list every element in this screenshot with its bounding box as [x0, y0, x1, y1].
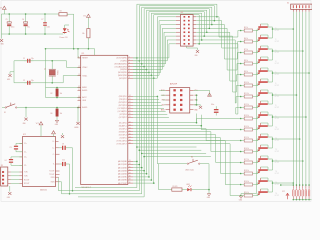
net PB7 loop route [154, 15, 241, 114]
svg-text:10k: 10k [60, 93, 63, 95]
svg-text:(INT1)PD3: (INT1)PD3 [119, 105, 127, 107]
header pin row 8 stubs [176, 43, 181, 45]
resistor R4 330 [59, 13, 67, 16]
svg-text:R15 1k: R15 1k [244, 137, 249, 139]
ladder vertical 5 [148, 12, 150, 177]
collector wire T7 [261, 90, 273, 93]
svg-text:R4: R4 [60, 11, 62, 13]
svg-text:(TXD)PD1: (TXD)PD1 [119, 99, 127, 101]
resistor R10 base [244, 84, 252, 87]
svg-text:(OC2)PD7: (OC2)PD7 [119, 117, 127, 119]
svg-text:X2: X2 [287, 2, 289, 4]
resistor R17 base [244, 161, 252, 164]
vert join aref avcc [45, 88, 47, 98]
capacitor C2 22p [27, 81, 28, 85]
collector wire T5 [261, 68, 273, 71]
net JP1 left pin 2 hook [133, 21, 176, 76]
transistor T6 [253, 85, 257, 87]
transistor T15 [253, 184, 257, 186]
svg-text:(ADC7)PA7: (ADC7)PA7 [118, 182, 127, 185]
resistor R16 base [244, 150, 252, 153]
collector wire T11 [261, 134, 273, 137]
svg-text:(SCK)PB7: (SCK)PB7 [119, 78, 127, 80]
wire R1 down to vcc net [87, 38, 89, 49]
ground under R6 [55, 120, 58, 122]
net JP1 left pin 4 hook [133, 28, 176, 69]
svg-text:100n: 100n [211, 104, 214, 106]
header pin row 3 stubs [176, 24, 181, 26]
svg-text:C9: C9 [62, 144, 64, 146]
supply +5V symbol [3, 9, 5, 14]
svg-text:R14 1k: R14 1k [244, 126, 249, 128]
isp gnd cross [194, 104, 201, 106]
wires PC pins to lower transistor resistors [133, 119, 241, 123]
pin header JP1 16pin [180, 15, 193, 47]
isp left wires [159, 89, 166, 91]
resistor R9 base [244, 73, 252, 76]
svg-text:MAX232: MAX232 [40, 189, 47, 192]
svg-text:10u: 10u [27, 27, 30, 29]
power rail bottom [2, 33, 64, 35]
wire vcc branch down AVCC [45, 49, 47, 88]
capacitor C4 left of IC [11, 156, 23, 158]
svg-text:R1OUT: R1OUT [24, 179, 29, 181]
collector wire T12 [261, 145, 273, 148]
bottom bundle line 3 [78, 196, 144, 198]
wire S2 left to riser [157, 163, 183, 165]
svg-text:Power ON: Power ON [60, 36, 69, 39]
wire avcc rail [46, 97, 81, 99]
svg-text:(INT0)PD2: (INT0)PD2 [119, 102, 127, 104]
resistor R2 top [56, 89, 59, 97]
wires PD pins heading right [133, 95, 157, 97]
collector wire T15 [261, 178, 273, 181]
header pin row 7 stubs [176, 39, 181, 41]
svg-text:GND: GND [23, 123, 26, 125]
svg-text:BC337: BC337 [275, 74, 279, 76]
svg-text:R12 1k: R12 1k [244, 104, 249, 106]
column bus verticals [292, 12, 294, 185]
net JP1 left pin 8 hook [133, 44, 176, 58]
svg-text:V+: V+ [52, 141, 54, 143]
svg-text:(ADC1)PA1: (ADC1)PA1 [118, 163, 127, 166]
resistor R5 base [244, 29, 252, 32]
svg-text:BC337: BC337 [275, 195, 279, 197]
LED2 [187, 188, 190, 191]
svg-text:C2+: C2+ [24, 157, 27, 159]
left pin stubs [78, 57, 81, 59]
net PB5 loop route [149, 12, 241, 92]
collector wire T9 [261, 112, 273, 115]
collector wire T2 [261, 35, 273, 38]
svg-text:BC337: BC337 [275, 184, 279, 186]
max232 to mcu serial wires [59, 177, 140, 191]
transistor T7 [253, 96, 257, 98]
svg-text:C1: C1 [23, 58, 25, 60]
svg-text:(SDA)PC1: (SDA)PC1 [119, 124, 127, 127]
svg-text:R17 1k: R17 1k [244, 159, 249, 161]
corner net 1 [139, 149, 201, 151]
svg-text:T10: T10 [275, 127, 278, 129]
svg-text:(ADC3)PA3: (ADC3)PA3 [118, 169, 127, 172]
LED1 top tie [65, 24, 69, 26]
svg-text:AREF: AREF [82, 86, 87, 89]
svg-text:C2: C2 [23, 80, 25, 82]
gnd cap top right [62, 133, 64, 135]
switch S1 reset [2, 107, 5, 109]
svg-text:(ICP)PD6: (ICP)PD6 [119, 114, 126, 116]
transistor T14 [253, 173, 257, 175]
svg-text:(OC0/AIN1)PB3: (OC0/AIN1)PB3 [115, 65, 127, 68]
resistor R1 10k [87, 29, 90, 38]
svg-text:LED/7-mode: LED/7-mode [185, 170, 194, 172]
bottom bundle line 0 [75, 187, 137, 189]
transistor T16 [253, 195, 257, 197]
wire R4 to corner [67, 13, 74, 15]
resistor R20 base [244, 194, 252, 197]
resistor R15 base [244, 139, 252, 142]
svg-text:100u: 100u [11, 27, 15, 29]
svg-text:(TOSC1)PC6: (TOSC1)PC6 [117, 140, 127, 142]
svg-text:C3: C3 [10, 147, 12, 149]
svg-text:AGND: AGND [82, 106, 88, 109]
svg-text:R6: R6 [51, 113, 53, 115]
svg-text:T14: T14 [275, 171, 278, 173]
svg-text:(TDO)PC4: (TDO)PC4 [119, 134, 127, 136]
collector wire T13 [261, 156, 273, 159]
svg-text:C5: C5 [6, 19, 8, 21]
collector wire T4 [261, 57, 273, 60]
capacitor C7 100n [43, 22, 47, 23]
net PB2 loop route [142, 7, 241, 59]
svg-text:BC337: BC337 [275, 129, 279, 131]
connector bottom matrix [292, 185, 294, 189]
svg-text:R6 1k: R6 1k [244, 38, 248, 40]
svg-text:BC337: BC337 [275, 52, 279, 54]
wire cap C9 down [72, 148, 74, 191]
svg-text:(ADC6)PA6: (ADC6)PA6 [118, 179, 127, 182]
svg-text:R7 1k: R7 1k [244, 49, 248, 51]
transistor T8 [253, 107, 257, 109]
svg-text:22p: 22p [31, 80, 34, 82]
svg-text:BC337: BC337 [275, 41, 279, 43]
svg-text:R18 1k: R18 1k [244, 170, 249, 172]
connector X2 top display [291, 4, 313, 9]
emitter rail [256, 30, 258, 194]
connector SV1 AVR-ISP [170, 88, 190, 113]
ground G1 [0, 39, 3, 42]
net JP1 left pin 1 hook [133, 17, 176, 78]
wire agnd rail [17, 107, 81, 109]
resistor R14 base [244, 128, 252, 131]
svg-text:R13 1k: R13 1k [244, 115, 249, 117]
ladder vertical 4 [146, 10, 148, 174]
capacitor C5 100u [7, 22, 11, 23]
capacitor C1 22p [27, 59, 28, 63]
svg-text:T2: T2 [275, 39, 277, 41]
ladder vertical 1 [138, 6, 140, 191]
ground of emitter rail [239, 196, 242, 198]
wire bottom connector rows [281, 184, 294, 186]
svg-text:MEGA16-P: MEGA16-P [82, 186, 92, 189]
svg-text:R10 1k: R10 1k [244, 82, 249, 84]
svg-text:T1OUT: T1OUT [49, 171, 54, 173]
ground under X1 [9, 186, 11, 192]
supply VCC arrow [87, 17, 89, 29]
transistor T10 [253, 129, 257, 131]
collector wire T8 [261, 101, 273, 104]
svg-text:(RXD)PD0: (RXD)PD0 [119, 96, 127, 98]
wire cap C10 down [69, 164, 71, 194]
svg-text:BC337: BC337 [275, 151, 279, 153]
PB pin taps [133, 57, 137, 59]
svg-text:R3 470: R3 470 [173, 186, 178, 188]
resistor R6 lower [56, 109, 59, 117]
net JP1 left pin 3 hook [133, 25, 176, 73]
capacitor C10 on V- [60, 163, 63, 165]
capacitor C3 left of IC [16, 142, 23, 144]
wire xtal top [14, 60, 67, 62]
svg-text:BC337: BC337 [275, 96, 279, 98]
svg-text:LED2: LED2 [186, 184, 190, 186]
wire xtal bottom [14, 82, 63, 84]
svg-text:(ADC0)PA0: (ADC0)PA0 [118, 160, 127, 163]
svg-text:10k: 10k [82, 33, 85, 35]
corner net 2 [142, 152, 206, 154]
resistor R3 [159, 189, 172, 191]
svg-text:R5 1k: R5 1k [244, 27, 248, 29]
header pin row 6 stubs [176, 35, 181, 37]
header pin row 5 stubs [176, 31, 181, 33]
svg-text:R8 1k: R8 1k [244, 60, 248, 62]
svg-text:(TMS)PC3: (TMS)PC3 [119, 131, 127, 133]
svg-text:BC337: BC337 [275, 173, 279, 175]
ground under LED2 [208, 190, 210, 194]
svg-text:BC337: BC337 [275, 118, 279, 120]
svg-text:BC337: BC337 [275, 107, 279, 109]
wire xtal1 to IC [63, 76, 80, 83]
svg-text:(TDI)PC5: (TDI)PC5 [120, 137, 127, 139]
net PB3 loop route [144, 9, 241, 70]
net JP1 left pin 5 hook [133, 32, 176, 66]
svg-text:(SS)PB4: (SS)PB4 [120, 69, 127, 71]
capacitor C6 10u [24, 22, 28, 23]
arrow symbol near matrix connector [286, 193, 289, 199]
svg-text:(ADC5)PA5: (ADC5)PA5 [118, 176, 127, 179]
collector wire T10 [261, 123, 273, 126]
header pin row 4 stubs [176, 27, 181, 29]
svg-text:C7: C7 [41, 19, 43, 21]
crystal Q1 16MHz [51, 61, 53, 70]
resistor R19 base [244, 183, 252, 186]
svg-text:IC2: IC2 [23, 134, 26, 136]
collector wire T1 [261, 24, 273, 27]
power rail top [2, 13, 59, 15]
svg-text:VCC: VCC [282, 191, 285, 193]
svg-text:C+: C+ [52, 148, 54, 150]
svg-text:(ADC2)PA2: (ADC2)PA2 [118, 166, 127, 169]
transistor T1 [253, 30, 257, 32]
svg-text:T16: T16 [275, 193, 278, 195]
svg-text:(INT2/AIN0)PB2: (INT2/AIN0)PB2 [114, 62, 126, 65]
net JP1 left pin 7 hook [133, 40, 176, 61]
corner net 3 [144, 156, 211, 158]
svg-text:100n: 100n [47, 27, 51, 29]
wire vcc to IC1 [94, 49, 96, 56]
collector wire T14 [261, 167, 273, 170]
svg-text:C1+: C1+ [24, 143, 27, 145]
net PB6 loop route [151, 13, 240, 103]
svg-text:(OC1A)PD5: (OC1A)PD5 [118, 110, 127, 113]
resistor R8 base [244, 62, 252, 65]
svg-text:S2: S2 [191, 156, 193, 158]
svg-text:T12: T12 [275, 149, 278, 151]
isp vcc arrow [194, 89, 210, 91]
wire aref rail [46, 87, 81, 89]
resistor R6 base [244, 40, 252, 43]
transistor T2 [253, 41, 257, 43]
IC2 MAX232 [23, 137, 56, 187]
header pin row 1 stubs [176, 16, 181, 18]
corner net 0 [137, 146, 197, 148]
isp dots column [196, 94, 198, 96]
microcontroller IC1 MEGA16-P [81, 55, 128, 184]
svg-text:SCK: SCK [162, 104, 165, 106]
svg-text:R19 1k: R19 1k [244, 181, 249, 183]
ground G2 stub [10, 71, 14, 73]
svg-text:JP1: JP1 [180, 12, 183, 14]
svg-text:GND: GND [195, 55, 198, 57]
svg-text:AGND: AGND [82, 89, 88, 92]
net PB1 loop route [139, 6, 240, 48]
svg-text:GND: GND [7, 197, 10, 199]
svg-text:Q1: Q1 [44, 69, 46, 71]
svg-text:AVR-ISP: AVR-ISP [170, 83, 178, 86]
header pin row 2 stubs [176, 20, 181, 22]
paired collector nets to column bus [272, 27, 274, 38]
svg-text:C10: C10 [62, 160, 65, 162]
wire vertical VCC feed [73, 14, 75, 49]
isp tail stubs down [196, 114, 198, 123]
svg-text:XTAL1: XTAL1 [82, 74, 87, 77]
svg-text:R16 1k: R16 1k [244, 148, 249, 150]
vcc arrow near IC top right [53, 134, 55, 137]
agnd ground cross [77, 108, 79, 122]
svg-text:(MOSI)PB5: (MOSI)PB5 [118, 72, 127, 74]
svg-text:(TOSC2)PC7: (TOSC2)PC7 [117, 143, 127, 145]
svg-text:(OC1B)PD4: (OC1B)PD4 [118, 108, 127, 110]
svg-text:XTAL2: XTAL2 [82, 66, 87, 69]
transistor T5 [253, 74, 257, 76]
transistor T9 [253, 118, 257, 120]
ground under switch [25, 108, 27, 118]
svg-text:S1: S1 [4, 112, 6, 114]
svg-text:(ADC4)PA4: (ADC4)PA4 [118, 173, 127, 176]
svg-text:T2OUT: T2OUT [49, 174, 54, 176]
resistor R18 base [244, 172, 252, 175]
svg-text:R2: R2 [51, 93, 53, 95]
wire xtal2 to IC [67, 61, 81, 68]
svg-text:BC337: BC337 [275, 85, 279, 87]
resistor R7 base [244, 51, 252, 54]
collector wire T3 [261, 46, 273, 49]
wire to reset pin riser [77, 49, 79, 58]
svg-text:RESET: RESET [82, 58, 88, 60]
vcc distribution wire [46, 48, 95, 50]
transistor T4 [253, 63, 257, 65]
transistor T13 [253, 162, 257, 164]
svg-text:T4: T4 [275, 61, 277, 63]
svg-text:BC337: BC337 [275, 162, 279, 164]
ladder vertical 2 [141, 7, 143, 194]
resistor R13 base [244, 117, 252, 120]
resistor R11 base [244, 95, 252, 98]
ground under JP1 [186, 46, 188, 48]
svg-text:(TCK)PC2: (TCK)PC2 [119, 128, 127, 130]
svg-text:R9 1k: R9 1k [244, 71, 248, 73]
collector wire T16 [261, 189, 273, 192]
ladder vertical 3 [143, 9, 145, 197]
svg-text:R2OUT: R2OUT [24, 183, 29, 185]
wire xtal left vertical [13, 61, 15, 83]
svg-text:AVCC: AVCC [82, 96, 87, 99]
svg-text:R20 1k: R20 1k [244, 192, 249, 194]
svg-text:(SCL)PC0: (SCL)PC0 [119, 122, 127, 124]
resistor R12 base [244, 106, 252, 109]
svg-text:BC337: BC337 [275, 30, 279, 32]
svg-text:T8: T8 [275, 105, 277, 107]
net PB4 loop route [147, 10, 241, 81]
svg-text:BC337: BC337 [275, 140, 279, 142]
transistor T12 [253, 151, 257, 153]
svg-text:IC1: IC1 [82, 53, 85, 55]
vcc for max232 [40, 125, 42, 137]
net JP1 left pin 6 hook [133, 36, 176, 64]
ladder vertical 7 [153, 15, 155, 183]
left rail vertical [1, 14, 3, 39]
wire S2 right down [204, 163, 210, 165]
svg-text:(MISO)PB6: (MISO)PB6 [118, 75, 127, 77]
svg-text:22p: 22p [31, 58, 34, 60]
capacitor C9 on C+ [59, 147, 63, 149]
svg-text:C6: C6 [22, 19, 24, 21]
switch S2 mode [183, 163, 187, 165]
svg-text:BC337: BC337 [275, 63, 279, 65]
transistor T11 [253, 140, 257, 142]
connector X1 serial [1, 167, 8, 186]
collector wire T6 [261, 79, 273, 82]
svg-text:T6: T6 [275, 83, 277, 85]
svg-text:R11 1k: R11 1k [244, 93, 249, 95]
net PB0 loop route [137, 4, 241, 37]
transistor T3 [253, 52, 257, 54]
svg-text:10k: 10k [60, 113, 63, 115]
svg-text:C4: C4 [5, 160, 7, 162]
svg-text:(T1)PB1: (T1)PB1 [120, 61, 126, 63]
PA pin taps [133, 160, 137, 162]
svg-text:X1: X1 [1, 165, 3, 167]
svg-text:GND: GND [7, 79, 10, 81]
svg-text:+5V: +5V [0, 8, 2, 10]
ladder vertical 0 [136, 4, 138, 187]
capacitor C8 [214, 109, 219, 110]
LED1 power on [64, 25, 66, 28]
ladder vertical 6 [150, 13, 152, 180]
svg-text:16MHz: 16MHz [56, 70, 58, 75]
svg-text:(XCK/T0)PB0: (XCK/T0)PB0 [116, 58, 126, 60]
